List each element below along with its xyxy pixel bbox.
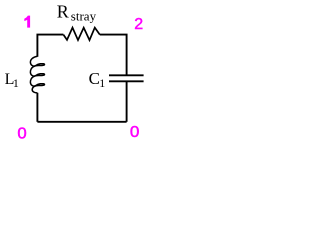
svg-text:stray: stray bbox=[71, 9, 97, 24]
svg-text:2: 2 bbox=[134, 16, 143, 33]
wire right-bottom bbox=[126, 82, 128, 122]
svg-text:R: R bbox=[57, 2, 69, 22]
wire bottom bbox=[37, 121, 126, 123]
capacitor C1 bottom plate bbox=[109, 80, 144, 82]
svg-text:1: 1 bbox=[99, 76, 105, 90]
wire top-right corner bbox=[100, 35, 127, 75]
svg-text:1: 1 bbox=[13, 76, 19, 90]
capacitor C1 top plate bbox=[109, 74, 144, 76]
svg-text:0: 0 bbox=[17, 125, 26, 143]
wire top-left corner bbox=[37, 35, 63, 57]
inductor L1 coil bbox=[30, 56, 44, 93]
wire left-bottom bbox=[36, 93, 38, 122]
resistor R_stray bbox=[63, 28, 99, 40]
svg-text:C: C bbox=[89, 69, 100, 88]
node 1 bbox=[24, 16, 30, 28]
svg-text:0: 0 bbox=[130, 122, 140, 140]
